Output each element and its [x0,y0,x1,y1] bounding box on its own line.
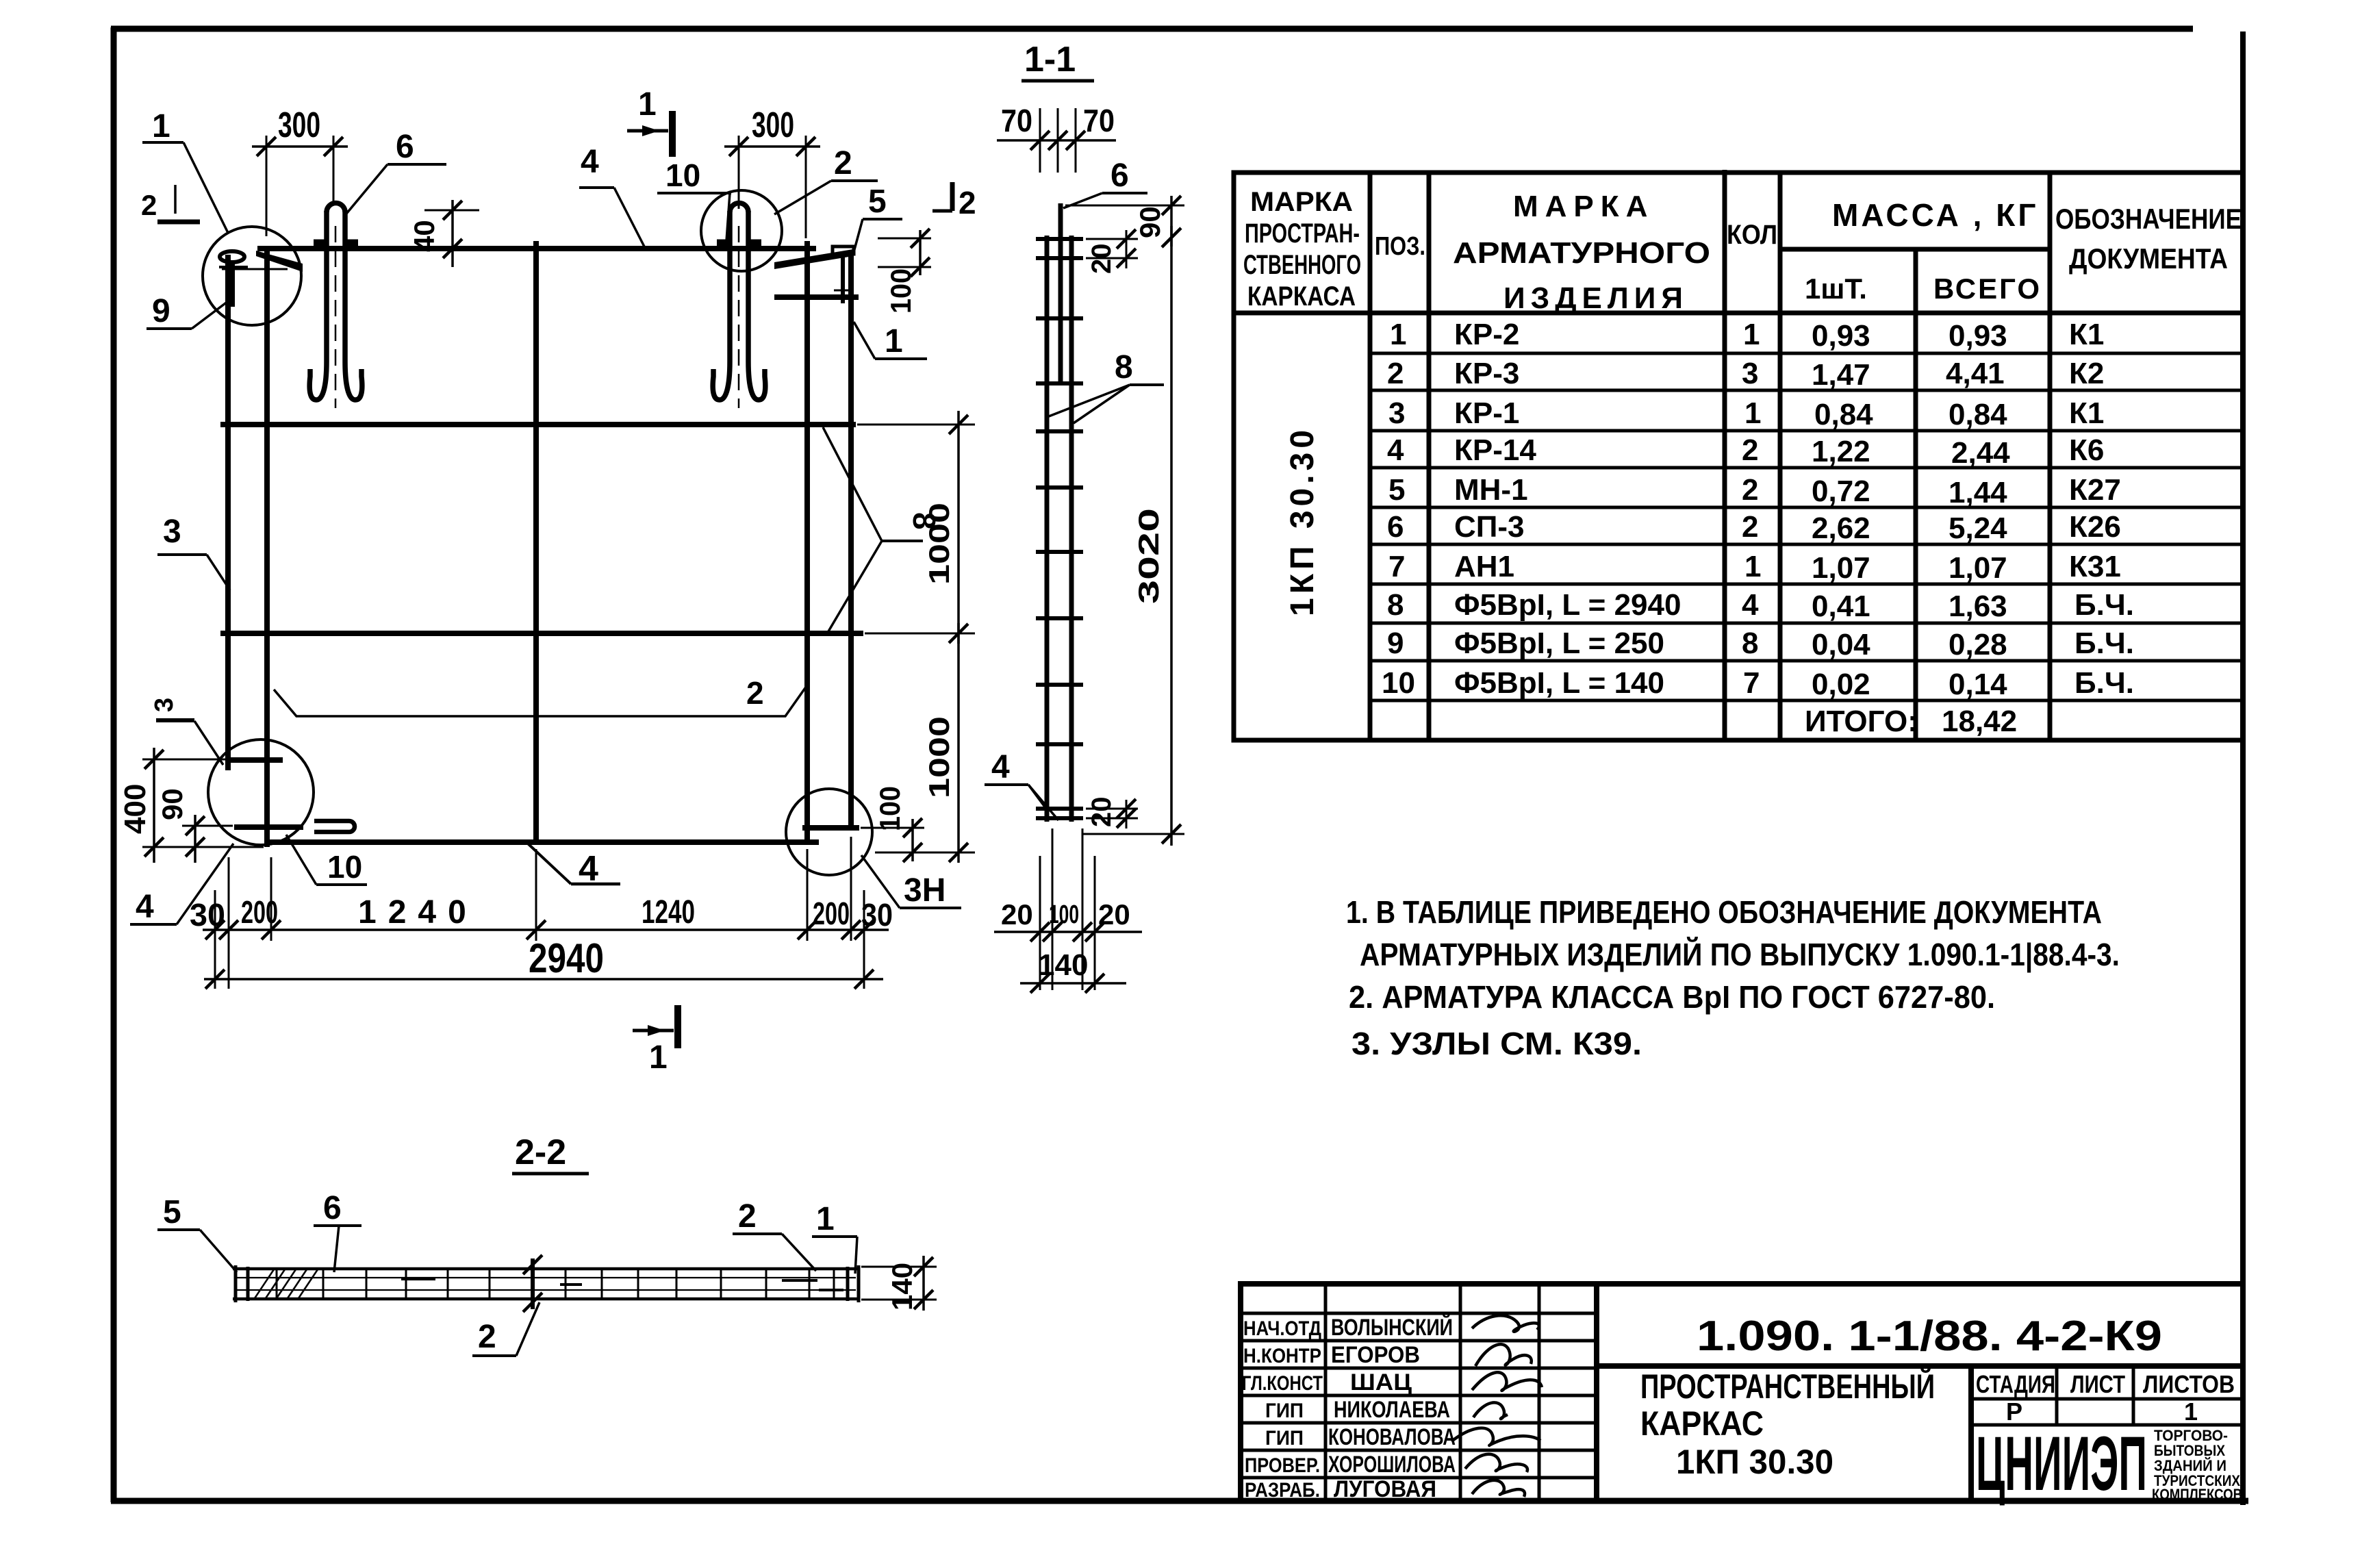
svg-text:СП-3: СП-3 [1454,510,1525,544]
svg-text:ИЗДЕЛИЯ: ИЗДЕЛИЯ [1503,281,1688,315]
svg-text:К26: К26 [2069,510,2121,544]
label 6 top-left [346,129,446,214]
svg-text:100: 100 [874,786,906,831]
title block names [1328,1314,1456,1502]
svg-text:2: 2 [1742,473,1758,507]
svg-text:КР-3: КР-3 [1454,357,1519,390]
svg-text:СТВЕННОГО: СТВЕННОГО [1243,250,1361,280]
svg-text:ВОЛЫНСКИЙ: ВОЛЫНСКИЙ [1331,1314,1453,1341]
section title 2-2 [512,1133,589,1174]
svg-text:2: 2 [738,1198,757,1235]
dimension 1000 upper [857,411,975,644]
label 10 bottom-left [286,835,367,885]
svg-text:3020: 3020 [1132,508,1165,604]
svg-text:3: 3 [163,514,181,550]
svg-text:КОМПЛЕКСОВ: КОМПЛЕКСОВ [2152,1486,2242,1503]
dimension 3020 [1082,226,1184,846]
svg-text:1: 1 [885,323,903,359]
svg-text:300: 300 [278,105,320,145]
dimension 90 bottom-left [156,788,233,863]
svg-text:8: 8 [1387,588,1404,622]
label 8 with leaders [823,427,942,631]
bottom chord bar 4 [265,839,819,845]
svg-text:Б.Ч.: Б.Ч. [2074,588,2134,622]
tie top right 100 [774,294,859,300]
thin weld line top-left [222,268,288,270]
beam inner wires [237,1277,856,1278]
title block grid [1241,1284,2243,1501]
label 10 top [657,157,731,241]
svg-text:ХОРОШИЛОВА: ХОРОШИЛОВА [1328,1452,1456,1478]
svg-text:300: 300 [752,105,794,145]
border frame top [111,26,2193,32]
dimension 100 bottom-right [861,786,924,862]
chord 3 horizontal wire 8 [220,631,863,636]
label 8 ladder [1049,349,1164,423]
svg-text:4: 4 [991,749,1010,785]
svg-text:6: 6 [1111,157,1129,194]
svg-text:2: 2 [141,189,157,221]
section mark 2 left [141,185,200,222]
svg-text:1-1: 1-1 [1024,40,1076,79]
svg-text:Б.Ч.: Б.Ч. [2074,627,2134,660]
beam top edge [233,1267,860,1271]
ladder rail right [1069,236,1074,822]
svg-text:3. УЗЛЫ СМ. К39.: 3. УЗЛЫ СМ. К39. [1352,1026,1642,1061]
svg-text:К2: К2 [2069,357,2104,390]
svg-text:ОБОЗНАЧЕНИЕ: ОБОЗНАЧЕНИЕ [2055,203,2242,235]
svg-text:1: 1 [816,1201,835,1237]
svg-text:МН-1: МН-1 [1454,473,1528,507]
dimension 100 top-right [878,229,931,314]
svg-text:ГЛ.КОНСТ: ГЛ.КОНСТ [1242,1372,1323,1395]
svg-text:Б.Ч.: Б.Ч. [2074,666,2134,700]
svg-text:5: 5 [1388,473,1405,507]
label 6 beam [314,1190,361,1272]
pin 5 vertical [841,254,845,303]
section mark 1 top [627,86,672,157]
svg-text:ГИП: ГИП [1265,1427,1304,1450]
svg-text:КР-2: КР-2 [1454,318,1519,351]
detail circle top-left [203,227,301,325]
svg-text:30: 30 [861,897,893,933]
svg-text:70: 70 [1083,103,1115,138]
svg-text:ВСЕГО: ВСЕГО [1933,273,2042,305]
label 9 [147,293,231,329]
bar 4 middle vertical [533,241,539,843]
beam bottom edge [233,1298,860,1301]
tie bottom left upper [227,757,283,763]
svg-text:АРМАТУРНЫХ ИЗДЕЛИЙ ПО ВЫПУСКУ: АРМАТУРНЫХ ИЗДЕЛИЙ ПО ВЫПУСКУ 1.090.1-1|… [1360,937,2120,972]
svg-text:Ф5ВрI, L = 2940: Ф5ВрI, L = 2940 [1454,588,1681,622]
svg-text:30: 30 [190,897,225,933]
border frame left [111,27,117,1502]
svg-text:КОНОВАЛОВА: КОНОВАЛОВА [1328,1424,1456,1450]
hook 10 bottom-left [314,821,355,832]
svg-text:0,72: 0,72 [1812,475,1870,508]
tie bottom left lower [234,824,303,830]
label 4 bottom-left [130,844,233,925]
dimension 300 right [724,105,820,238]
svg-text:Ф5ВрI, L = 140: Ф5ВрI, L = 140 [1454,666,1664,700]
svg-text:2. АРМАТУРА КЛАССА ВрI ПО ГОСТ: 2. АРМАТУРА КЛАССА ВрI ПО ГОСТ 6727-80. [1349,979,1995,1015]
svg-text:НАЧ.ОТД: НАЧ.ОТД [1243,1317,1321,1340]
svg-text:3: 3 [150,698,179,712]
section mark 1 bottom [633,1005,678,1076]
svg-text:7: 7 [1388,550,1405,583]
svg-text:МАРКА: МАРКА [1250,187,1353,217]
svg-text:140: 140 [886,1263,918,1311]
svg-text:2940: 2940 [529,935,604,981]
loop 6 right weld collars [717,240,729,250]
svg-text:К1: К1 [2069,318,2104,351]
svg-text:10: 10 [665,157,700,193]
dimension 20 ladder bottom [1086,797,1138,829]
svg-text:КОЛ: КОЛ [1727,220,1777,250]
svg-text:200: 200 [813,896,850,931]
label 1 right [854,322,927,359]
ladder rungs [1036,239,1083,818]
svg-text:1: 1 [1744,550,1761,583]
bar 3 left edge vertical [225,255,231,770]
label 4 top [579,144,644,246]
pin 9 vertical [231,262,235,307]
svg-text:РАЗРАБ.: РАЗРАБ. [1245,1479,1320,1502]
label 2 beam top [733,1198,816,1271]
bar 1 right edge vertical [848,253,854,830]
svg-text:4,41: 4,41 [1946,357,2005,390]
svg-text:20: 20 [1001,898,1033,931]
svg-text:0,02: 0,02 [1812,668,1870,701]
label 5 beam [157,1194,237,1272]
svg-text:ЛИСТ: ЛИСТ [2070,1370,2125,1398]
svg-text:КР-1: КР-1 [1454,396,1519,430]
svg-text:0,93: 0,93 [1949,319,2007,353]
plate of pin 5 top-right [833,246,854,254]
dimension 1000 lower [865,623,975,863]
svg-text:МАССА , КГ: МАССА , КГ [1832,197,2038,233]
svg-text:1,63: 1,63 [1949,590,2007,623]
svg-text:10: 10 [327,849,362,885]
ladder bottom dimension 20/100/20 [994,829,1142,990]
svg-text:1,07: 1,07 [1812,551,1870,585]
beam verticals [277,1269,834,1299]
svg-text:ЦНИИЭП: ЦНИИЭП [1976,1421,2147,1506]
svg-text:6: 6 [396,129,414,165]
svg-text:7: 7 [1743,666,1760,700]
svg-text:5: 5 [868,184,887,220]
svg-text:8: 8 [1115,349,1133,385]
title block role labels [1242,1317,1323,1502]
svg-text:1240: 1240 [642,894,695,931]
dimension 400 bottom-left [118,748,264,863]
svg-text:1. В ТАБЛИЦЕ ПРИВЕДЕНО ОБОЗНАЧ: 1. В ТАБЛИЦЕ ПРИВЕДЕНО ОБОЗНАЧЕНИЕ ДОКУМ… [1346,894,2102,930]
svg-text:400: 400 [118,784,152,834]
svg-text:0,84: 0,84 [1814,398,1873,431]
svg-text:ГИП: ГИП [1265,1400,1304,1422]
top chord bar 4 [257,246,816,251]
bar right inner vertical [804,241,810,843]
svg-text:АРМАТУРНОГО: АРМАТУРНОГО [1453,236,1710,270]
svg-text:9: 9 [152,293,170,329]
callout line item 2 [274,675,807,716]
svg-text:5,24: 5,24 [1949,511,2007,545]
svg-text:1,07: 1,07 [1949,551,2007,585]
bottom dimension row 30/200/1240/1240/200/30 [190,837,893,989]
svg-text:1: 1 [649,1039,668,1076]
detail circle top-right [701,190,782,271]
svg-text:ДОКУМЕНТА: ДОКУМЕНТА [2069,242,2228,275]
dimension 140 beam [861,1256,937,1311]
svg-text:ЛИСТОВ: ЛИСТОВ [2143,1370,2235,1398]
svg-text:0,41: 0,41 [1812,590,1870,623]
loop 6 left weld collars [314,240,326,250]
svg-text:2: 2 [1387,357,1404,390]
section flag 3 bottom-left [150,698,223,765]
svg-text:1КП 30.30: 1КП 30.30 [1284,426,1321,616]
svg-text:ПРОВЕР.: ПРОВЕР. [1245,1454,1320,1477]
svg-text:90: 90 [156,788,188,820]
svg-text:1000: 1000 [923,503,955,585]
svg-text:К31: К31 [2069,550,2121,583]
svg-text:1: 1 [2184,1398,2198,1426]
svg-text:К1: К1 [2069,396,2104,430]
section cut 2 through beam [523,1255,542,1312]
svg-text:40: 40 [408,220,440,252]
svg-text:1.090. 1-1/88. 4-2-К9: 1.090. 1-1/88. 4-2-К9 [1697,1313,2162,1360]
border frame right [2240,31,2246,1505]
label 1 beam [812,1201,857,1274]
svg-text:0,93: 0,93 [1812,319,1870,353]
weld wedge top-left [256,251,303,272]
ladder overall 140 [1020,948,1126,993]
label 6 ladder [1063,157,1147,208]
dimension 90 ladder [1065,196,1184,247]
label 3H bottom-right [861,855,961,909]
dimension 70 70 top [997,103,1116,173]
pin 5 cross tick [834,290,853,292]
svg-text:6: 6 [323,1190,342,1226]
dimension 40 top [408,200,479,267]
svg-text:0,28: 0,28 [1949,628,2007,661]
detail circle bottom-left [208,739,314,845]
loop 6 side view bar [1058,203,1063,383]
label 3 left [157,514,230,590]
beam left end plate [234,1265,238,1302]
chord 2 horizontal wire 8 [220,422,856,427]
svg-text:2-2: 2-2 [515,1133,566,1172]
label 2 top-right [774,145,878,214]
svg-text:4: 4 [136,889,154,925]
svg-text:2: 2 [959,185,976,220]
label 1 top-left [142,108,228,233]
tie bottom right [802,825,859,831]
svg-text:НИКОЛАЕВА: НИКОЛАЕВА [1334,1397,1450,1423]
svg-text:ПРОСТРАН-: ПРОСТРАН- [1245,218,1360,249]
svg-text:К6: К6 [2069,433,2104,467]
svg-text:8: 8 [1742,627,1758,660]
svg-text:3: 3 [1388,396,1405,430]
svg-text:18,42: 18,42 [1942,705,2017,738]
svg-text:90: 90 [1134,206,1166,238]
border frame bottom [111,1498,2248,1504]
svg-text:4: 4 [581,144,599,180]
svg-text:2: 2 [834,145,852,181]
dimension 300 left [252,105,348,236]
svg-text:ПРОСТРАНСТВЕННЫЙ: ПРОСТРАНСТВЕННЫЙ [1640,1367,1935,1406]
bar left inner vertical [264,249,270,847]
svg-text:1,44: 1,44 [1949,476,2007,509]
svg-text:100: 100 [1049,900,1079,929]
beam left hatch [255,1269,318,1298]
label 4 bottom-middle [528,844,620,889]
lifting loop 6 right: wires [713,203,765,401]
dimension 20 ladder top [1086,229,1138,274]
svg-text:КАРКАС: КАРКАС [1640,1404,1764,1443]
svg-text:2,62: 2,62 [1812,511,1870,545]
svg-text:АН1: АН1 [1454,550,1514,583]
table data rows [1382,318,2134,738]
svg-text:Н.КОНТР: Н.КОНТР [1243,1345,1321,1367]
svg-text:5: 5 [163,1194,181,1230]
label 4 ladder bottom [985,749,1058,820]
table grid [1234,170,2243,740]
svg-text:0,04: 0,04 [1812,628,1870,661]
section title 1-1 [1021,40,1094,81]
lifting loop 6 left: wires [309,203,362,401]
svg-text:ЕГОРОВ: ЕГОРОВ [1331,1342,1420,1368]
svg-text:10: 10 [1382,666,1415,700]
label 2 beam bottom [472,1302,540,1356]
institute small text [2152,1427,2242,1503]
beam right end plate [846,1267,850,1301]
svg-text:1шТ.: 1шТ. [1805,273,1867,305]
ladder rail left [1045,236,1050,822]
signatures [1451,1315,1542,1497]
svg-text:1КП 30.30: 1КП 30.30 [1676,1443,1833,1481]
svg-text:4: 4 [1742,588,1759,622]
svg-text:ИТОГО:: ИТОГО: [1805,705,1918,738]
pin 9 head plate top-left [220,251,244,262]
svg-text:1: 1 [1390,318,1406,351]
loop 6 right centerline [738,226,740,408]
svg-text:4: 4 [1387,433,1404,467]
svg-text:1: 1 [638,86,657,123]
beam panel marks [401,1279,843,1290]
detail circle bottom-right [786,789,872,875]
svg-text:3Н: 3Н [904,872,946,909]
svg-text:1: 1 [1744,396,1761,430]
svg-text:ПОЗ.: ПОЗ. [1375,232,1425,261]
svg-text:1000: 1000 [923,716,955,798]
svg-text:20: 20 [1087,797,1117,828]
svg-text:1240: 1240 [358,894,478,931]
svg-text:70: 70 [1001,103,1032,138]
svg-text:ЛУГОВАЯ: ЛУГОВАЯ [1334,1476,1436,1502]
svg-text:2: 2 [1742,510,1758,544]
svg-text:3: 3 [1742,357,1758,390]
pin 9 cross tick [219,266,248,268]
svg-text:2: 2 [1742,433,1758,467]
section mark 2 right [932,182,976,220]
svg-text:6: 6 [1387,510,1404,544]
svg-text:СТАДИЯ: СТАДИЯ [1976,1370,2055,1398]
svg-text:9: 9 [1387,627,1404,660]
svg-text:КАРКАСА: КАРКАСА [1247,281,1356,312]
svg-text:ШАЦ: ШАЦ [1350,1369,1412,1395]
svg-text:Ф5ВрI, L = 250: Ф5ВрI, L = 250 [1454,627,1664,660]
svg-text:КР-14: КР-14 [1454,433,1536,467]
svg-text:200: 200 [241,894,278,930]
svg-text:1: 1 [1743,318,1760,351]
table header texts [1243,187,2242,315]
label 5 [854,184,902,252]
svg-text:К27: К27 [2069,473,2121,507]
svg-text:0,84: 0,84 [1949,398,2007,431]
overall dimension 2940 [204,935,883,989]
svg-text:0,14: 0,14 [1949,668,2007,701]
svg-text:2: 2 [478,1319,496,1355]
loop 6 left centerline [335,226,337,408]
svg-text:1,47: 1,47 [1812,358,1870,392]
svg-text:1: 1 [152,108,170,144]
svg-text:2: 2 [746,675,764,711]
svg-text:2,44: 2,44 [1951,436,2010,470]
svg-text:1,22: 1,22 [1812,435,1870,468]
svg-text:МАРКА: МАРКА [1513,190,1654,223]
weld wedge top-right [774,249,853,269]
